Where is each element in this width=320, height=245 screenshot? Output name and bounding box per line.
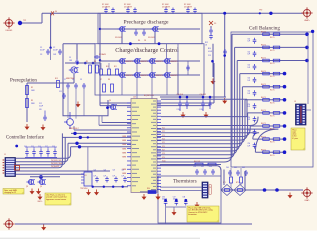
svg-text:C34: C34 <box>193 166 196 168</box>
svg-text:R4: R4 <box>138 40 140 42</box>
svg-text:C25: C25 <box>113 170 116 172</box>
svg-text:Controller Interface: Controller Interface <box>6 135 44 140</box>
svg-text:VC5: VC5 <box>162 142 165 144</box>
svg-text:C13: C13 <box>208 55 211 57</box>
svg-text:Precharge discharge: Precharge discharge <box>124 20 170 26</box>
svg-text:R40 75: R40 75 <box>261 45 266 47</box>
svg-text:R12: R12 <box>205 42 208 44</box>
svg-text:VBRN: VBRN <box>122 148 126 150</box>
svg-text:D4: D4 <box>55 11 57 13</box>
svg-text:Charge/discharge Control: Charge/discharge Control <box>115 47 179 54</box>
svg-text:1UF: 1UF <box>248 106 251 108</box>
svg-text:R3: R3 <box>31 100 33 102</box>
svg-text:R14: R14 <box>208 48 211 50</box>
svg-text:VBRN: VBRN <box>122 152 126 154</box>
svg-text:R2: R2 <box>31 87 33 89</box>
svg-text:J4: J4 <box>209 187 211 189</box>
svg-text:R40 75: R40 75 <box>261 58 266 60</box>
svg-text:bypasses current sense: bypasses current sense <box>46 198 66 201</box>
svg-text:thermistor: thermistor <box>188 213 197 216</box>
svg-text:R60 10K: R60 10K <box>194 161 200 163</box>
svg-text:R40 75: R40 75 <box>261 97 266 99</box>
svg-text:C30 1UF: C30 1UF <box>200 94 206 96</box>
svg-text:1UF: 1UF <box>248 132 251 134</box>
svg-text:VC1: VC1 <box>162 128 165 130</box>
svg-text:GSD25P15: GSD25P15 <box>155 75 163 77</box>
svg-text:IC pins: IC pins <box>292 138 298 140</box>
svg-text:R41 75: R41 75 <box>270 155 275 157</box>
svg-text:R41 75: R41 75 <box>270 89 275 91</box>
svg-text:1UF: 1UF <box>69 60 72 62</box>
svg-text:50V: 50V <box>39 109 42 111</box>
svg-text:VC4: VC4 <box>162 139 165 141</box>
svg-text:R11: R11 <box>114 66 117 68</box>
svg-text:C50: C50 <box>248 91 251 93</box>
svg-text:2.2UF: 2.2UF <box>177 109 181 111</box>
svg-text:Q5: Q5 <box>109 100 111 102</box>
svg-text:0.1UF: 0.1UF <box>40 49 45 51</box>
svg-text:MMBT3904-7: MMBT3904-7 <box>69 128 79 130</box>
svg-text:VBRN: VBRN <box>122 140 126 142</box>
svg-text:1UF: 1UF <box>94 176 97 178</box>
svg-text:2.2UF: 2.2UF <box>200 109 204 111</box>
svg-text:R41 75: R41 75 <box>270 76 275 78</box>
svg-text:1UF: 1UF <box>113 176 116 178</box>
svg-text:TP2: TP2 <box>259 10 262 12</box>
svg-text:1UF: 1UF <box>248 41 251 43</box>
svg-text:C60: C60 <box>226 167 229 169</box>
svg-text:1UF: 1UF <box>53 54 56 56</box>
svg-text:0.1UF: 0.1UF <box>53 49 58 51</box>
svg-text:1000pF: 1000pF <box>162 199 167 201</box>
svg-text:PM_BUS_SCL: PM_BUS_SCL <box>51 160 62 162</box>
svg-text:1000pF: 1000pF <box>173 199 178 201</box>
svg-text:J3: J3 <box>294 101 296 103</box>
svg-text:C36: C36 <box>209 166 212 168</box>
svg-text:R40 75: R40 75 <box>261 123 266 125</box>
svg-text:charging on J2: charging on J2 <box>4 192 16 194</box>
svg-text:R41 75: R41 75 <box>270 50 275 52</box>
svg-text:VC7: VC7 <box>162 149 165 151</box>
svg-text:U3: U3 <box>85 175 87 177</box>
svg-text:R40 75: R40 75 <box>261 84 266 86</box>
svg-text:GSD25P15: GSD25P15 <box>140 75 148 77</box>
svg-text:GSD25P15: GSD25P15 <box>155 61 163 63</box>
svg-text:Q8: Q8 <box>26 186 28 188</box>
svg-text:R41 75: R41 75 <box>270 129 275 131</box>
svg-text:R8: R8 <box>108 79 110 81</box>
svg-text:J1: J1 <box>4 154 6 156</box>
svg-text:R40 75: R40 75 <box>261 32 266 34</box>
svg-text:C3: C3 <box>40 54 42 56</box>
svg-text:VBRN: VBRN <box>122 173 126 175</box>
svg-text:Thermistors: Thermistors <box>173 180 197 185</box>
svg-text:GSD25P15: GSD25P15 <box>125 75 133 77</box>
svg-text:C35: C35 <box>201 166 204 168</box>
svg-text:VBRN: VBRN <box>122 157 126 159</box>
svg-text:R40 75: R40 75 <box>261 149 266 151</box>
svg-text:C50: C50 <box>248 104 251 106</box>
svg-text:C61: C61 <box>234 167 237 169</box>
svg-text:C18: C18 <box>52 146 55 148</box>
svg-text:R5: R5 <box>86 61 88 63</box>
svg-text:C50: C50 <box>248 130 251 132</box>
svg-text:R6: R6 <box>94 61 96 63</box>
svg-text:Q9: Q9 <box>40 186 42 188</box>
svg-text:C9: C9 <box>80 79 82 81</box>
svg-text:VC9: VC9 <box>162 157 165 159</box>
svg-text:VC8: VC8 <box>162 153 165 155</box>
svg-text:C16: C16 <box>38 146 41 148</box>
svg-text:GSD25P15: GSD25P15 <box>170 61 178 63</box>
svg-text:LM4041: LM4041 <box>6 30 13 32</box>
svg-text:Cell Balancing: Cell Balancing <box>249 26 280 32</box>
svg-text:D9: D9 <box>14 164 16 166</box>
svg-text:1UF: 1UF <box>248 145 251 147</box>
svg-text:TPS76350: TPS76350 <box>80 188 88 190</box>
svg-text:R41 75: R41 75 <box>270 63 275 65</box>
svg-text:R40 75: R40 75 <box>261 110 266 112</box>
svg-text:R40 75: R40 75 <box>261 136 266 138</box>
svg-text:R13: R13 <box>55 78 58 80</box>
svg-text:C5: C5 <box>69 57 71 59</box>
svg-text:C50: C50 <box>248 143 251 145</box>
svg-text:0.1UF: 0.1UF <box>39 105 43 107</box>
svg-text:1UF: 1UF <box>248 54 251 56</box>
svg-text:C62: C62 <box>242 167 245 169</box>
svg-text:C11: C11 <box>59 91 62 93</box>
svg-text:C15: C15 <box>31 146 34 148</box>
svg-text:R30: R30 <box>147 188 150 190</box>
svg-text:C12: C12 <box>39 103 42 105</box>
svg-text:0.1UF: 0.1UF <box>208 51 212 53</box>
svg-text:R10: R10 <box>106 66 109 68</box>
svg-text:UBAT+: UBAT+ <box>304 19 311 22</box>
svg-text:VC6: VC6 <box>162 146 165 148</box>
svg-text:VC3: VC3 <box>162 135 165 137</box>
svg-text:C17: C17 <box>45 146 48 148</box>
svg-text:C36: C36 <box>162 197 165 199</box>
svg-text:C14: C14 <box>24 146 27 148</box>
svg-text:C25: C25 <box>122 170 125 172</box>
svg-text:VC10: VC10 <box>162 160 166 162</box>
svg-text:R41 75: R41 75 <box>270 142 275 144</box>
svg-text:TP1: TP1 <box>23 20 26 22</box>
svg-text:C50: C50 <box>248 51 251 53</box>
svg-text:VBRN: VBRN <box>122 144 126 146</box>
svg-text:C38: C38 <box>182 197 185 199</box>
svg-text:C50: C50 <box>248 65 251 67</box>
svg-text:D5: D5 <box>214 23 216 25</box>
svg-text:1UF: 1UF <box>104 176 107 178</box>
svg-text:R41 75: R41 75 <box>270 102 275 104</box>
svg-text:1UF: 1UF <box>248 67 251 69</box>
svg-text:GSD25P15: GSD25P15 <box>170 75 178 77</box>
svg-text:C50: C50 <box>248 38 251 40</box>
svg-text:1UF: 1UF <box>122 176 125 178</box>
svg-text:1UF: 1UF <box>248 93 251 95</box>
svg-text:C30 1UF: C30 1UF <box>177 94 183 96</box>
svg-text:C50: C50 <box>248 78 251 80</box>
svg-text:GSD25P15: GSD25P15 <box>125 61 133 63</box>
svg-text:1UF: 1UF <box>248 119 251 121</box>
svg-text:C25: C25 <box>94 170 97 172</box>
svg-text:UBAT-: UBAT- <box>304 199 310 202</box>
svg-text:C50: C50 <box>248 117 251 119</box>
svg-text:GSD25P15: GSD25P15 <box>140 61 148 63</box>
svg-text:R41 75: R41 75 <box>270 116 275 118</box>
svg-text:C37: C37 <box>173 197 176 199</box>
svg-text:MMBT3904: MMBT3904 <box>66 78 74 80</box>
svg-text:RT1: RT1 <box>236 182 239 184</box>
svg-text:R40 75: R40 75 <box>261 71 266 73</box>
svg-text:R41 75: R41 75 <box>270 37 275 39</box>
svg-text:1UF: 1UF <box>248 80 251 82</box>
svg-text:VC2: VC2 <box>162 131 165 133</box>
svg-text:C25: C25 <box>104 170 107 172</box>
